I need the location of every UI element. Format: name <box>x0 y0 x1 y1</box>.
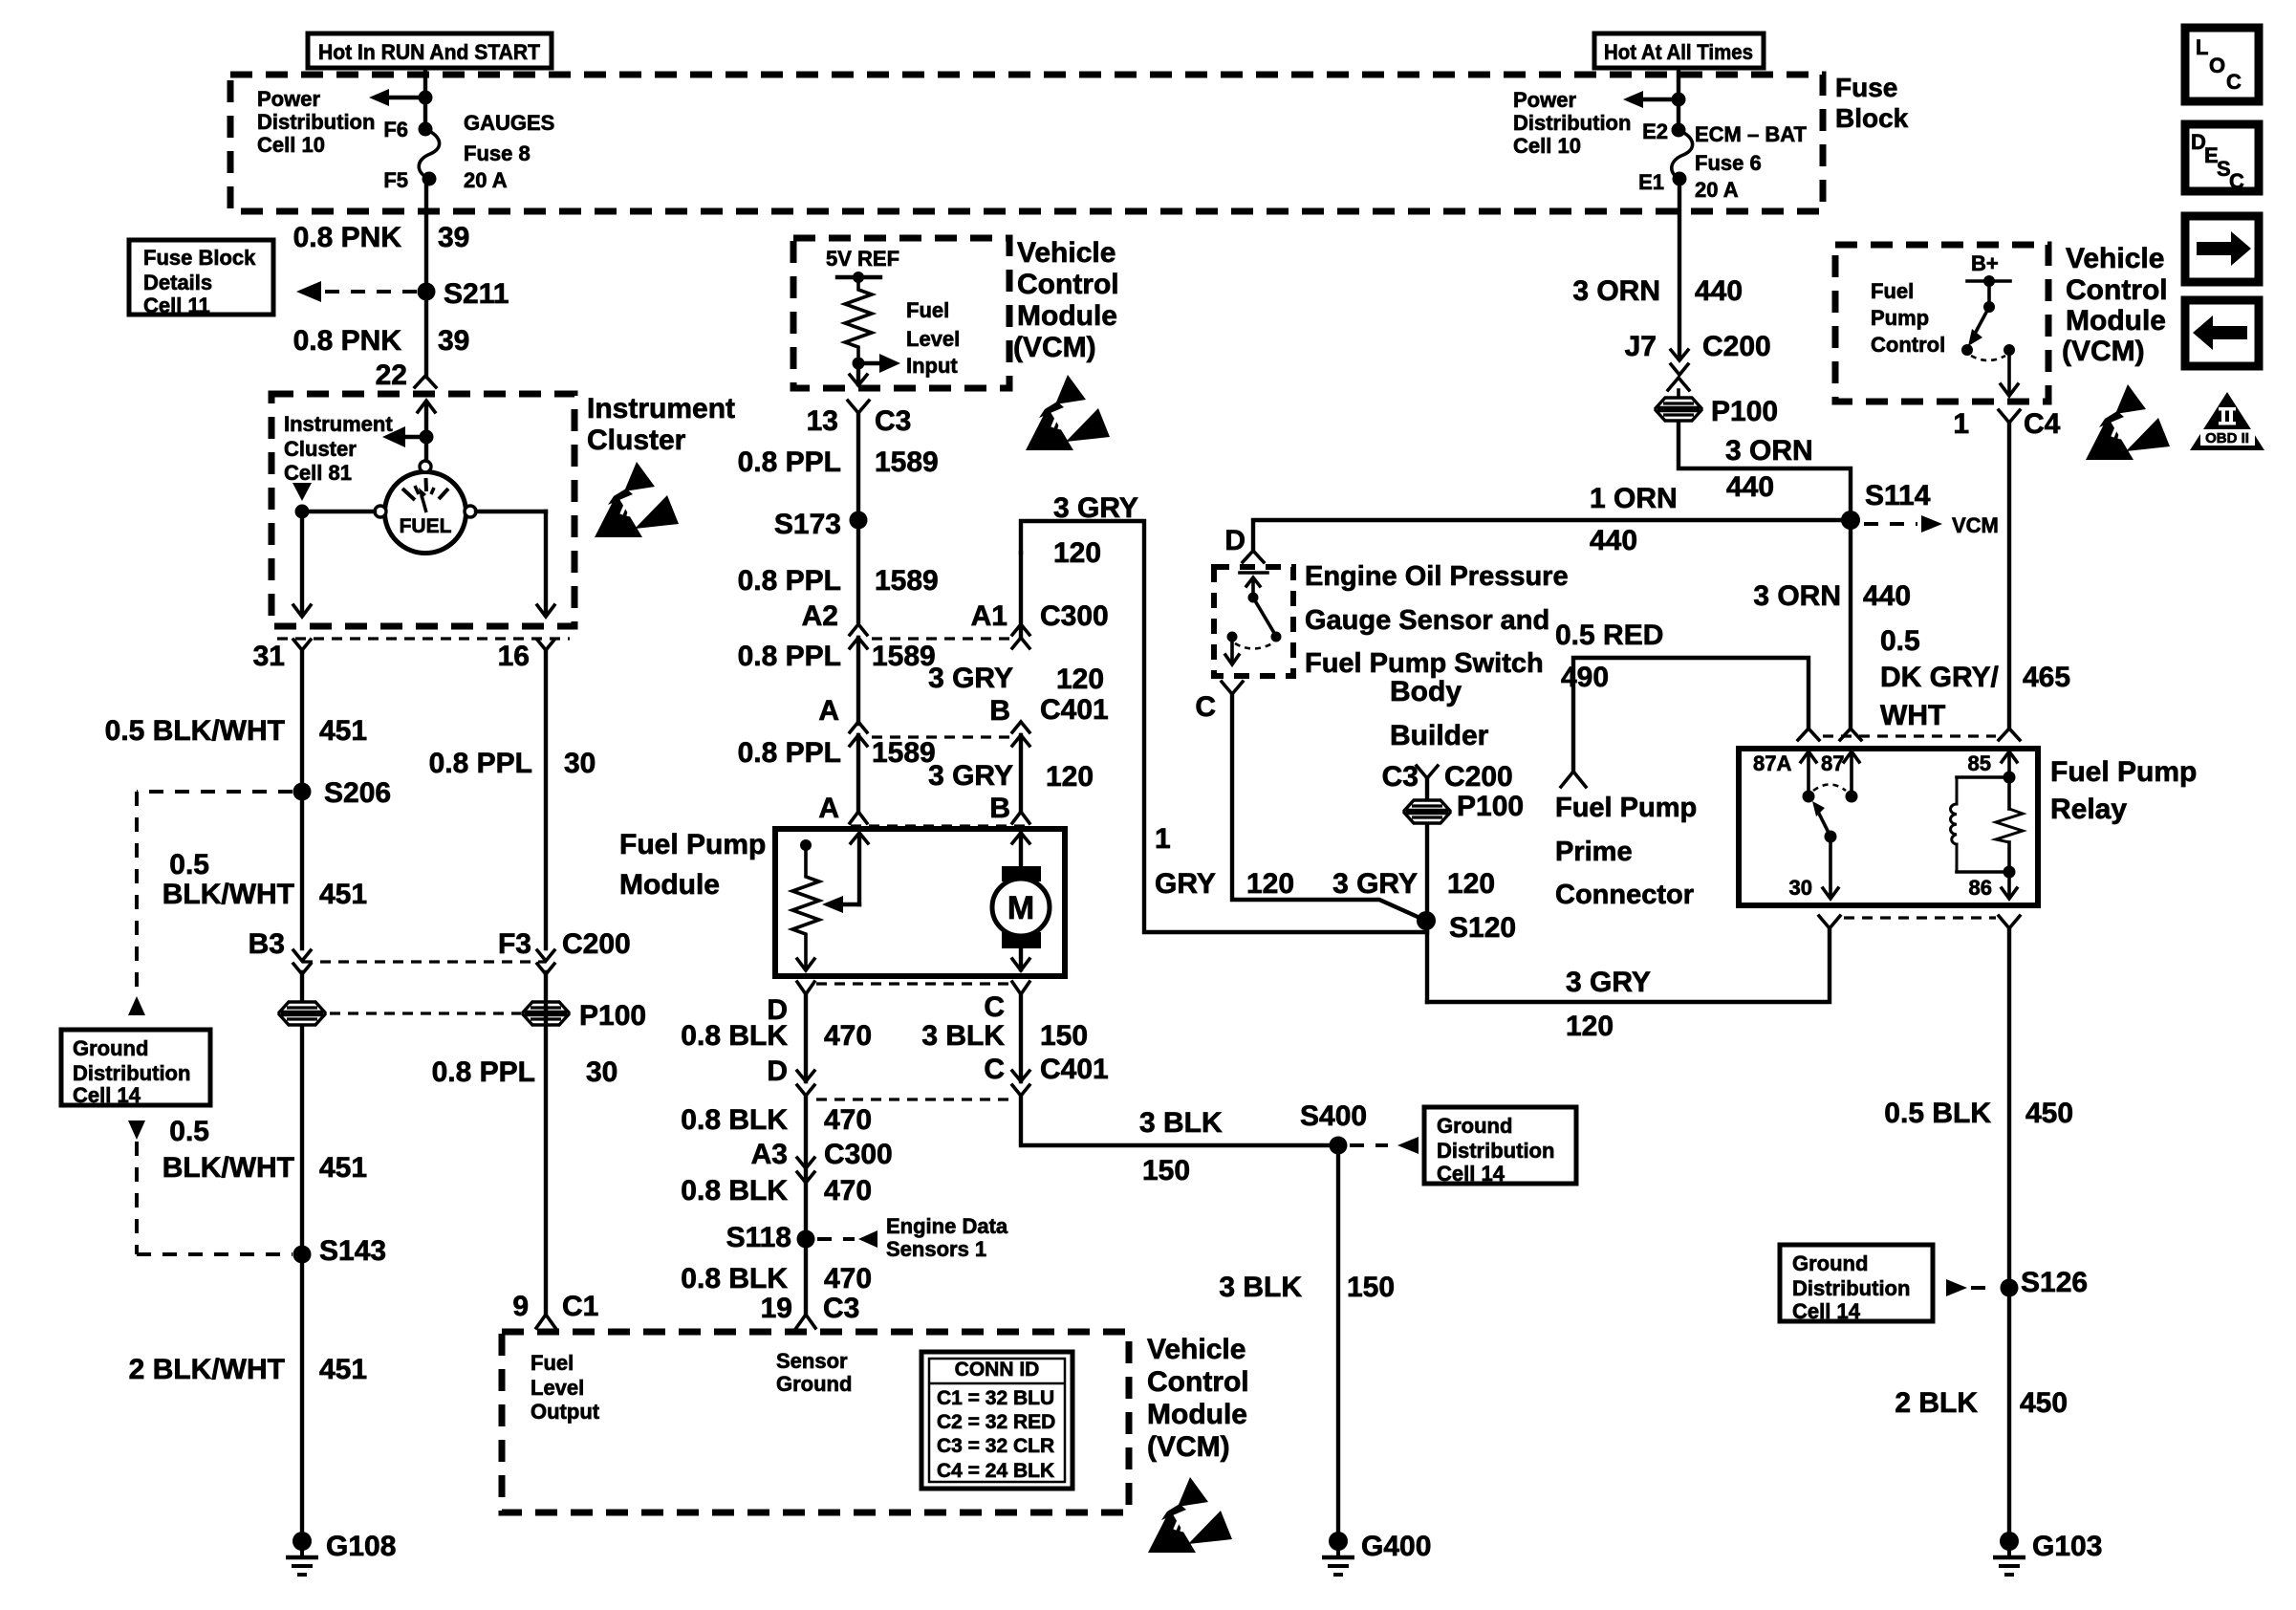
svg-text:451: 451 <box>319 1152 367 1184</box>
svg-text:150: 150 <box>1347 1272 1395 1303</box>
svg-text:F6: F6 <box>383 118 408 141</box>
svg-text:C3: C3 <box>1382 761 1419 793</box>
wire label 3 BLK 150 (horizontal) <box>1139 1107 1223 1186</box>
svg-text:87A: 87A <box>1753 751 1791 775</box>
svg-text:Fuel Pump Switch: Fuel Pump Switch <box>1305 648 1544 679</box>
connector line C401 <box>872 735 1009 738</box>
svg-text:Gauge Sensor and: Gauge Sensor and <box>1305 605 1549 636</box>
dashed arrow S211 to fuse block details <box>296 281 417 302</box>
svg-text:0.5 BLK/WHT: 0.5 BLK/WHT <box>105 715 285 747</box>
svg-text:ECM – BAT: ECM – BAT <box>1695 122 1807 146</box>
svg-text:19: 19 <box>761 1293 792 1324</box>
svg-text:16: 16 <box>498 641 530 672</box>
svg-text:30: 30 <box>586 1056 617 1088</box>
svg-text:120: 120 <box>1053 537 1101 569</box>
right wire F3 to C1 <box>544 972 548 1316</box>
relay switch arc <box>1813 785 1846 792</box>
connector line below cluster <box>277 637 570 640</box>
VCM bottom dashed box <box>502 1332 1129 1512</box>
svg-text:Ground: Ground <box>1792 1251 1868 1275</box>
right arrow box <box>2185 216 2259 282</box>
wire C to S400 <box>1021 1098 1331 1145</box>
svg-text:Power: Power <box>257 87 320 111</box>
splice S120 <box>1417 911 1516 944</box>
svg-text:C200: C200 <box>562 928 631 960</box>
svg-text:S120: S120 <box>1449 912 1516 944</box>
fuel level input arrow <box>853 354 901 373</box>
svg-text:Builder: Builder <box>1390 720 1489 751</box>
svg-text:9: 9 <box>512 1291 529 1322</box>
svg-text:C: C <box>2229 169 2244 193</box>
svg-text:0.8 BLK: 0.8 BLK <box>681 1263 788 1295</box>
svg-text:Engine Data: Engine Data <box>886 1214 1008 1238</box>
svg-text:Cell 81: Cell 81 <box>284 461 352 485</box>
svg-text:P100: P100 <box>579 1000 646 1032</box>
svg-text:C: C <box>984 991 1005 1023</box>
svg-text:Fuse Block: Fuse Block <box>143 246 256 270</box>
svg-text:Block: Block <box>1835 103 1909 133</box>
svg-text:S400: S400 <box>1300 1100 1367 1132</box>
svg-text:S206: S206 <box>324 777 391 809</box>
sender variable resistor <box>792 839 819 970</box>
svg-text:451: 451 <box>319 879 367 910</box>
wire label 1 ORN 440 <box>1590 483 1678 556</box>
svg-text:3 ORN: 3 ORN <box>1725 435 1813 467</box>
wire 86 to S126 to G103 <box>2007 928 2011 1534</box>
svg-text:Distribution: Distribution <box>1437 1139 1554 1163</box>
svg-text:C300: C300 <box>824 1139 893 1170</box>
svg-text:DK GRY/: DK GRY/ <box>1880 662 2000 693</box>
svg-text:Pump: Pump <box>1871 306 1929 330</box>
wire label 0.8 PPL 30 <box>429 748 596 779</box>
sender wiper arrow <box>822 833 868 913</box>
svg-text:Body: Body <box>1390 676 1462 707</box>
svg-text:2 BLK: 2 BLK <box>1895 1387 1978 1419</box>
wire label 2 BLK 450 <box>1895 1387 2068 1419</box>
svg-text:0.8 BLK: 0.8 BLK <box>681 1020 788 1052</box>
connector line module bottom <box>816 982 1013 985</box>
svg-text:Hot In RUN And START: Hot In RUN And START <box>318 40 541 64</box>
oil pressure sensor element <box>1240 573 1267 603</box>
svg-text:Cluster: Cluster <box>284 437 357 461</box>
svg-text:Fuse: Fuse <box>1835 73 1897 102</box>
fuel pump module box <box>775 829 1065 976</box>
svg-text:3 GRY: 3 GRY <box>1566 967 1651 998</box>
svg-text:Control: Control <box>2066 274 2168 306</box>
Instrument Cluster title <box>587 393 735 456</box>
svg-text:(VCM): (VCM) <box>1147 1431 1230 1463</box>
svg-text:C401: C401 <box>1040 694 1109 726</box>
svg-text:Relay: Relay <box>2050 794 2127 825</box>
left column wire 31 down to S206 <box>300 650 304 948</box>
connector 9 C1 (female) <box>536 1315 555 1328</box>
svg-text:0.8 PPL: 0.8 PPL <box>738 641 841 672</box>
dashed arrow ground distribution to S126 <box>1946 1279 1996 1296</box>
wire label 3 GRY 120 (relay) <box>1566 967 1651 1042</box>
wire C to S120 <box>1232 694 1426 921</box>
Power Distribution Cell 10 text (right) <box>1513 88 1631 158</box>
relay pin 87A <box>1753 751 1816 803</box>
svg-text:20 A: 20 A <box>464 168 508 192</box>
svg-text:A2: A2 <box>802 600 838 632</box>
wire label 0.8 BLK 470 (3) <box>681 1175 872 1207</box>
svg-text:WHT: WHT <box>1880 700 1945 731</box>
VCM fuel pump control dashed box <box>1835 245 2048 402</box>
ECM-BAT Fuse 6 20 A label <box>1695 122 1807 202</box>
ground distribution cell 14 box (left) <box>61 1030 210 1107</box>
inline connector P100 (right) <box>523 1002 569 1025</box>
power distribution arrow (right) <box>1623 91 1686 108</box>
svg-text:1589: 1589 <box>875 446 939 478</box>
svg-text:C401: C401 <box>1040 1054 1109 1085</box>
connector line relay bottom <box>1844 916 1996 919</box>
svg-text:451: 451 <box>319 1354 367 1385</box>
svg-text:5V REF: 5V REF <box>826 247 899 271</box>
connector D module (female) <box>797 982 814 994</box>
svg-text:Details: Details <box>143 271 212 294</box>
svg-text:BLK/WHT: BLK/WHT <box>162 879 294 910</box>
svg-text:Level: Level <box>906 327 960 351</box>
Fuel Pump Prime Connector label <box>1555 793 1697 910</box>
wire label 0.8 BLK 470 (2) <box>681 1104 872 1136</box>
svg-text:Module: Module <box>2066 305 2166 337</box>
svg-text:Ground: Ground <box>73 1036 148 1060</box>
connector A-B C401 <box>850 722 867 811</box>
connector 86 (female) <box>1999 916 2020 928</box>
svg-text:C1 = 32 BLU: C1 = 32 BLU <box>937 1387 1054 1409</box>
svg-text:P100: P100 <box>1457 791 1524 822</box>
wire label 3 ORN 440 (3) <box>1753 580 1911 612</box>
pump motor M <box>992 829 1050 970</box>
svg-text:0.8 BLK: 0.8 BLK <box>681 1104 788 1136</box>
svg-text:F3: F3 <box>498 928 531 960</box>
OBD II symbol <box>2190 392 2264 450</box>
svg-text:0.5: 0.5 <box>1880 625 1920 657</box>
connector 13 C3 (female) <box>848 401 869 413</box>
svg-text:C: C <box>1195 691 1216 723</box>
relay coil <box>1951 751 2023 879</box>
CONN ID table <box>921 1352 1072 1489</box>
connector 19 C3 (female) <box>796 1315 815 1328</box>
ground G400 <box>1322 1531 1431 1575</box>
svg-text:Instrument: Instrument <box>587 393 735 424</box>
svg-text:Prime: Prime <box>1555 837 1633 867</box>
svg-text:Cell 14: Cell 14 <box>1437 1162 1505 1186</box>
wire P100 to S114 <box>1679 422 1851 729</box>
svg-text:Control: Control <box>1017 269 1119 300</box>
svg-text:Level: Level <box>531 1376 584 1400</box>
5V REF node bar <box>837 272 880 283</box>
svg-text:B3: B3 <box>249 928 285 960</box>
Fuel Pump Relay title <box>2050 756 2197 825</box>
wire body builder to S120 <box>1425 824 1429 1002</box>
svg-text:D: D <box>767 1055 788 1087</box>
wire S211 down <box>424 292 428 377</box>
connector A2-A1 C300 <box>850 624 867 724</box>
svg-text:Sensors 1: Sensors 1 <box>886 1237 986 1261</box>
ESD symbol (instrument cluster) <box>595 462 679 537</box>
svg-text:C300: C300 <box>1040 600 1109 632</box>
svg-text:Power: Power <box>1513 88 1576 112</box>
svg-text:L: L <box>2196 35 2208 59</box>
svg-text:Control: Control <box>1147 1366 1249 1398</box>
wire label 0.8 BLK 470 (4) <box>681 1263 872 1295</box>
svg-text:3 BLK: 3 BLK <box>1219 1272 1302 1303</box>
wire label 0.8 PPL 1589 <box>738 446 939 478</box>
splice S211 <box>418 278 509 310</box>
connector 31 (female) <box>293 640 311 650</box>
svg-text:M: M <box>1007 890 1034 926</box>
svg-text:451: 451 <box>319 715 367 747</box>
wire from Hot In RUN box into fuse block <box>423 68 427 129</box>
svg-text:Fuel: Fuel <box>1871 279 1914 303</box>
svg-text:G108: G108 <box>326 1531 396 1562</box>
svg-text:Control: Control <box>1871 333 1945 357</box>
wire label 3 BLK 150 <box>921 1020 1088 1052</box>
label box Hot In RUN And START <box>308 33 552 68</box>
connector B C401 (female) <box>1012 553 1029 811</box>
svg-text:Distribution: Distribution <box>73 1061 190 1085</box>
svg-text:440: 440 <box>1695 275 1743 307</box>
connector D (female) <box>1243 551 1264 562</box>
connector to P100 (male) <box>1668 378 1689 398</box>
Fuse Block title <box>1835 73 1909 133</box>
svg-text:0.8 PPL: 0.8 PPL <box>429 748 532 779</box>
svg-text:GRY: GRY <box>1155 868 1216 900</box>
wire label 0.5 DK GRY/WHT 465 <box>1880 625 2070 731</box>
svg-text:Cluster: Cluster <box>587 424 686 456</box>
connector C C401 <box>1012 994 1029 1096</box>
fuse block details box <box>129 240 273 317</box>
arrow out of 5V REF box <box>850 363 867 385</box>
fuel pump relay box <box>1739 749 2038 905</box>
wire label 2 BLK/WHT 451 <box>129 1354 367 1385</box>
svg-text:Cell 10: Cell 10 <box>1513 134 1581 158</box>
svg-text:1: 1 <box>1953 408 1969 440</box>
left arrow box <box>2185 300 2259 366</box>
svg-text:1: 1 <box>1155 823 1171 855</box>
engine oil pressure switch dashed box <box>1214 567 1293 676</box>
ground distribution cell 14 box (right) <box>1780 1245 1933 1323</box>
svg-text:3 GRY: 3 GRY <box>928 663 1013 694</box>
inline connector P100 (engine harness) <box>1656 398 1701 421</box>
fuse block dashed box <box>230 75 1823 211</box>
svg-text:3 GRY: 3 GRY <box>1053 492 1138 524</box>
connector A1 (female) <box>1012 624 1029 648</box>
svg-text:1 ORN: 1 ORN <box>1590 483 1678 514</box>
svg-text:Cell 14: Cell 14 <box>73 1083 141 1107</box>
svg-text:3 ORN: 3 ORN <box>1753 580 1841 612</box>
svg-text:Fuel Pump: Fuel Pump <box>1555 793 1697 823</box>
wire label 0.8 PPL 30 (2) <box>432 1056 618 1088</box>
svg-text:D: D <box>1224 525 1245 556</box>
svg-text:C: C <box>984 1054 1005 1085</box>
Fuel Pump Control label <box>1871 279 1945 357</box>
wire D down <box>804 994 808 1081</box>
connector line C300 <box>872 637 1009 640</box>
svg-text:Vehicle: Vehicle <box>1147 1334 1245 1365</box>
svg-text:Distribution: Distribution <box>257 110 375 134</box>
svg-text:S118: S118 <box>726 1222 791 1253</box>
Power Distribution Cell 10 text (left) <box>257 87 375 157</box>
svg-text:Fuse 6: Fuse 6 <box>1695 151 1762 175</box>
svg-text:E1: E1 <box>1638 170 1664 194</box>
svg-text:BLK/WHT: BLK/WHT <box>162 1152 294 1184</box>
svg-text:0.8 PPL: 0.8 PPL <box>738 737 841 769</box>
svg-text:Input: Input <box>906 354 958 378</box>
wire C4 to relay 85 <box>2007 423 2011 729</box>
Vehicle Control Module (VCM) title top right <box>2062 243 2168 367</box>
svg-text:Module: Module <box>1147 1399 1247 1430</box>
svg-text:FUEL: FUEL <box>400 515 452 537</box>
connector line module top <box>851 824 1030 827</box>
LOC box <box>2185 28 2259 101</box>
Fuel Level Output label <box>531 1351 600 1424</box>
power distribution arrow (left) <box>369 89 433 106</box>
svg-text:A3: A3 <box>751 1139 788 1170</box>
svg-text:Connector: Connector <box>1555 880 1694 910</box>
svg-text:450: 450 <box>2020 1387 2068 1419</box>
1 ORN wire S114 to D <box>1253 520 1851 551</box>
connector line relay top <box>1823 734 1996 737</box>
svg-text:Ground: Ground <box>1437 1114 1512 1138</box>
svg-text:86: 86 <box>1969 876 1992 900</box>
svg-text:O: O <box>2209 54 2225 77</box>
connector A3 C300 <box>797 1158 814 1183</box>
wire label 0.8 PPL 1589 (2) <box>738 565 939 597</box>
0.5 RED wire prime connector <box>1573 658 1809 771</box>
DESC box <box>2185 124 2259 193</box>
svg-text:0.8 PNK: 0.8 PNK <box>293 325 402 357</box>
connector F3 arrow <box>537 950 554 974</box>
wire label 0.8 PPL 1589 (3) <box>738 641 936 672</box>
arrow into cluster top <box>418 401 435 437</box>
svg-text:470: 470 <box>824 1175 872 1207</box>
svg-text:465: 465 <box>2023 662 2070 693</box>
svg-text:C4 = 24 BLK: C4 = 24 BLK <box>937 1460 1054 1482</box>
fuel pump control switch blade <box>1961 307 2015 360</box>
svg-text:GAUGES: GAUGES <box>464 111 554 135</box>
Vehicle Control Module title (top middle) <box>1013 237 1119 363</box>
splice S114 <box>1841 480 1931 530</box>
wire label 0.5 RED 490 <box>1555 620 1663 693</box>
wire label 0.8 PNK 39 <box>293 222 470 253</box>
svg-text:470: 470 <box>824 1263 872 1295</box>
svg-text:C1: C1 <box>562 1291 598 1322</box>
ESD symbol (VCM top middle) <box>1026 375 1110 450</box>
svg-text:3 BLK: 3 BLK <box>1139 1107 1223 1139</box>
Fuel Pump Module title <box>619 829 766 901</box>
svg-text:150: 150 <box>1040 1020 1088 1052</box>
connector J7 C200 arrow <box>1671 350 1688 375</box>
ground G108 <box>286 1531 396 1575</box>
wire label 0.8 BLK 470 <box>681 1020 872 1052</box>
wire label 3 BLK 150 (vertical) <box>1219 1272 1395 1303</box>
svg-text:3 ORN: 3 ORN <box>1572 275 1660 307</box>
svg-text:31: 31 <box>253 641 285 672</box>
svg-text:G400: G400 <box>1361 1531 1431 1562</box>
svg-text:Fuel Pump: Fuel Pump <box>619 829 766 860</box>
wire label 3 GRY 120 (top) <box>1053 492 1138 569</box>
dashed link P100 <box>330 1012 521 1014</box>
svg-text:0.5 RED: 0.5 RED <box>1555 620 1663 651</box>
svg-text:1589: 1589 <box>872 641 936 672</box>
3 GRY wire from B up to S120 branch <box>1021 521 1427 932</box>
svg-text:C200: C200 <box>1702 331 1771 362</box>
svg-text:Module: Module <box>1017 300 1117 332</box>
svg-text:Output: Output <box>531 1400 600 1424</box>
fuse F6 ECM-BAT 20A <box>1672 123 1693 186</box>
dashed wire S206 to ground distribution <box>128 792 292 1015</box>
ESD symbol (VCM top right) <box>2086 384 2170 460</box>
svg-text:0.5 BLK: 0.5 BLK <box>1884 1098 1991 1129</box>
relay switch blade 30 <box>1789 801 1838 900</box>
svg-text:S114: S114 <box>1865 480 1931 511</box>
svg-text:(VCM): (VCM) <box>1013 332 1096 363</box>
connector D C401 <box>797 1071 814 1096</box>
svg-text:0.5: 0.5 <box>169 849 209 881</box>
svg-text:Vehicle: Vehicle <box>2066 243 2164 274</box>
svg-text:0.8 PPL: 0.8 PPL <box>738 446 841 478</box>
svg-text:30: 30 <box>1789 876 1812 900</box>
svg-text:2 BLK/WHT: 2 BLK/WHT <box>129 1354 285 1385</box>
svg-text:0.8 PPL: 0.8 PPL <box>738 565 841 597</box>
svg-text:120: 120 <box>1246 868 1294 900</box>
Fuel Level Input label <box>906 298 960 378</box>
svg-text:Cell 11: Cell 11 <box>143 294 210 317</box>
resistor fuel level sender pull-up <box>845 277 872 363</box>
svg-text:120: 120 <box>1566 1011 1614 1042</box>
wire from Hot At All Times into fuse block <box>1677 68 1680 130</box>
Engine Oil Pressure Gauge Sensor and Fuel Pump Switch label <box>1305 561 1569 679</box>
wire label 3 GRY 120 (C300-C401) <box>928 663 1104 695</box>
wire label 3 GRY 120 (2) <box>928 760 1094 793</box>
dashed wire ground distribution to S143 <box>128 1120 292 1254</box>
GAUGES Fuse 8 20 A label <box>464 111 554 192</box>
svg-text:39: 39 <box>438 325 469 357</box>
svg-text:A: A <box>818 695 839 727</box>
svg-text:C200: C200 <box>1444 761 1513 793</box>
svg-text:F5: F5 <box>383 168 408 192</box>
svg-text:B: B <box>989 695 1010 727</box>
svg-text:440: 440 <box>1726 471 1774 503</box>
svg-text:450: 450 <box>2025 1098 2073 1129</box>
svg-text:13: 13 <box>807 405 838 437</box>
wire label 3 GRY 120 (body) <box>1332 868 1495 900</box>
svg-text:Fuse 8: Fuse 8 <box>464 141 531 165</box>
svg-text:0.5: 0.5 <box>169 1116 209 1147</box>
svg-text:0.8 PPL: 0.8 PPL <box>432 1056 535 1088</box>
gauge left wire <box>292 483 375 617</box>
svg-text:Sensor: Sensor <box>776 1349 848 1373</box>
svg-text:Fuel: Fuel <box>531 1351 574 1375</box>
svg-text:S173: S173 <box>774 509 841 540</box>
svg-text:20 A: 20 A <box>1695 178 1739 202</box>
cluster internal left arrow <box>382 426 434 447</box>
wire label 0.5 BLK/WHT 451 <box>105 715 367 747</box>
inline connector P100 (left) <box>279 1002 325 1025</box>
wire label 0.5 BLK/WHT 451 (3) <box>162 1116 367 1184</box>
svg-text:1589: 1589 <box>872 737 936 769</box>
svg-text:0.8 PNK: 0.8 PNK <box>293 222 402 253</box>
svg-text:C3: C3 <box>875 405 911 437</box>
connector 30 (female) <box>1819 916 1840 928</box>
svg-text:C3: C3 <box>823 1293 859 1324</box>
svg-text:A1: A1 <box>971 600 1007 632</box>
wire S143 to G108 <box>300 1254 304 1534</box>
svg-text:Vehicle: Vehicle <box>1017 237 1116 269</box>
ground G103 <box>1993 1531 2102 1575</box>
